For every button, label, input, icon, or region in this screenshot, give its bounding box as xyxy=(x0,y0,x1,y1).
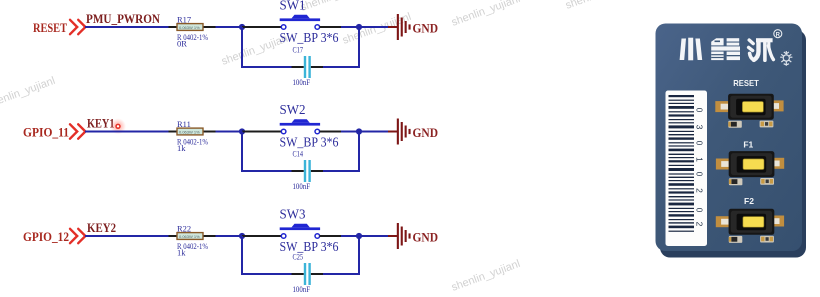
svg-text:C17: C17 xyxy=(293,45,304,55)
svg-text:R: R xyxy=(776,32,781,38)
annotation red dot xyxy=(110,118,126,134)
svg-text:100nF: 100nF xyxy=(293,77,311,87)
ground xyxy=(397,14,438,40)
capacitor C25 xyxy=(292,252,324,294)
capacitor C14 xyxy=(292,149,324,191)
wire xyxy=(359,235,397,237)
svg-text:SW_BP 3*6: SW_BP 3*6 xyxy=(280,239,339,254)
button F2 xyxy=(716,209,784,243)
svg-text:GND: GND xyxy=(413,21,439,35)
wire xyxy=(242,131,281,133)
svg-text:SW3: SW3 xyxy=(280,206,306,221)
node junction A1 xyxy=(239,24,245,30)
svg-text:2: 2 xyxy=(695,222,705,227)
wire xyxy=(216,235,243,237)
board photo xyxy=(656,24,807,258)
port chevron GPIO_11 xyxy=(70,124,85,138)
svg-text:C25: C25 xyxy=(293,252,304,262)
net label KEY2 xyxy=(87,220,116,235)
svg-text:GND: GND xyxy=(413,230,439,244)
label RESET xyxy=(733,78,759,88)
logo xiaoxiongpai char 2 xyxy=(711,38,740,60)
wire xyxy=(242,132,292,172)
port chevron RESET xyxy=(70,20,85,34)
logo xiaoxiongpai char 1 xyxy=(680,38,703,61)
svg-text:0: 0 xyxy=(695,208,705,213)
node junction A3 xyxy=(239,233,245,239)
wire xyxy=(216,131,243,133)
svg-text:0.063W 1%: 0.063W 1% xyxy=(179,25,200,30)
port RESET xyxy=(33,20,67,35)
wire xyxy=(85,26,169,28)
svg-text:100nF: 100nF xyxy=(293,181,311,191)
svg-text:0: 0 xyxy=(695,108,705,113)
node junction A2 xyxy=(239,128,245,134)
svg-text:SW_BP 3*6: SW_BP 3*6 xyxy=(280,135,339,150)
svg-text:F2: F2 xyxy=(744,196,754,206)
wire xyxy=(85,131,169,133)
port GPIO_12 xyxy=(23,229,69,244)
bear emblem xyxy=(780,51,792,66)
registered trademark xyxy=(774,30,782,39)
button RESET xyxy=(715,94,783,128)
barcode label xyxy=(666,91,708,247)
net label PMU_PWRON xyxy=(86,11,161,26)
svg-text:0: 0 xyxy=(695,141,705,146)
svg-text:1: 1 xyxy=(695,157,705,162)
node junction B3 xyxy=(356,233,362,239)
wire xyxy=(320,235,359,237)
resistor R17 xyxy=(169,14,216,48)
barcode bars xyxy=(669,95,695,232)
wire xyxy=(320,131,359,133)
svg-text:RESET: RESET xyxy=(733,78,759,88)
svg-text:R22: R22 xyxy=(177,223,191,233)
resistor R11 xyxy=(169,119,216,153)
svg-text:PMU_PWRON: PMU_PWRON xyxy=(86,11,161,26)
svg-text:RESET: RESET xyxy=(33,20,67,35)
svg-text:GPIO_11: GPIO_11 xyxy=(23,124,69,139)
svg-text:SW_BP 3*6: SW_BP 3*6 xyxy=(280,30,339,45)
port GPIO_11 xyxy=(23,124,69,139)
wire xyxy=(323,132,359,172)
svg-text:GPIO_12: GPIO_12 xyxy=(23,229,69,244)
svg-text:100nF: 100nF xyxy=(293,284,311,294)
wire xyxy=(242,27,292,67)
wire xyxy=(359,26,397,28)
button F1 xyxy=(716,151,784,185)
svg-text:0R: 0R xyxy=(177,39,187,49)
node junction B2 xyxy=(356,128,362,134)
svg-text:1k: 1k xyxy=(177,143,186,153)
svg-text:SW2: SW2 xyxy=(280,102,306,117)
label F2 xyxy=(744,196,754,206)
ground xyxy=(397,119,438,145)
svg-text:C14: C14 xyxy=(293,149,304,159)
label F1 xyxy=(743,139,753,149)
svg-text:F1: F1 xyxy=(743,139,753,149)
svg-text:0: 0 xyxy=(695,172,705,177)
wire xyxy=(320,26,359,28)
wire xyxy=(85,235,169,237)
svg-text:KEY2: KEY2 xyxy=(87,220,116,235)
switch SW1 xyxy=(280,0,339,45)
svg-text:SW1: SW1 xyxy=(280,0,306,12)
node junction B1 xyxy=(356,24,362,30)
switch SW3 xyxy=(280,206,339,254)
capacitor C17 xyxy=(292,45,324,87)
svg-text:R17: R17 xyxy=(177,14,191,24)
wire xyxy=(359,131,397,133)
wire xyxy=(323,27,359,67)
port chevron GPIO_12 xyxy=(70,229,85,243)
switch SW2 xyxy=(280,102,339,150)
ground xyxy=(397,223,438,249)
wire xyxy=(323,236,359,274)
net label KEY1 xyxy=(87,116,115,131)
svg-text:0.063W 1%: 0.063W 1% xyxy=(179,234,200,239)
watermarks xyxy=(0,0,636,294)
barcode digits xyxy=(695,108,705,227)
logo xiaoxiongpai char 3 xyxy=(749,40,754,60)
wire xyxy=(242,26,281,28)
svg-text:R11: R11 xyxy=(177,119,191,129)
svg-text:0.063W 1%: 0.063W 1% xyxy=(179,129,200,134)
svg-text:3: 3 xyxy=(695,125,705,130)
resistor R22 xyxy=(169,223,216,257)
wire xyxy=(242,235,281,237)
svg-text:1k: 1k xyxy=(177,248,186,258)
wire xyxy=(242,236,292,274)
svg-text:2: 2 xyxy=(695,188,705,193)
svg-text:GND: GND xyxy=(413,126,439,140)
wire xyxy=(216,26,243,28)
